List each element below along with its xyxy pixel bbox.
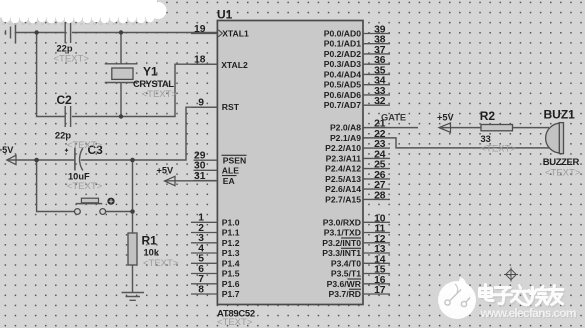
svg-text:P1.1: P1.1 bbox=[222, 228, 240, 238]
svg-text:18: 18 bbox=[194, 55, 206, 66]
svg-text:P0.6/AD6: P0.6/AD6 bbox=[324, 90, 361, 100]
svg-text:P1.7: P1.7 bbox=[222, 289, 240, 299]
svg-text:P0.0/AD0: P0.0/AD0 bbox=[324, 29, 361, 39]
svg-text:P1.5: P1.5 bbox=[222, 269, 240, 279]
svg-text:<TEXT>: <TEXT> bbox=[67, 181, 103, 192]
svg-text:www.elecfans.com: www.elecfans.com bbox=[480, 306, 577, 320]
svg-text:U1: U1 bbox=[217, 8, 233, 22]
svg-text:33: 33 bbox=[481, 134, 491, 144]
svg-text:P3.4/T0: P3.4/T0 bbox=[331, 258, 361, 268]
svg-text:<TEXT>: <TEXT> bbox=[545, 168, 581, 179]
svg-text:XTAL1: XTAL1 bbox=[222, 29, 249, 39]
svg-text:+5V: +5V bbox=[0, 145, 14, 155]
svg-text:10k: 10k bbox=[144, 248, 160, 258]
svg-text:<TEXT>: <TEXT> bbox=[54, 54, 90, 65]
svg-text:R2: R2 bbox=[480, 109, 496, 123]
svg-text:P2.7/A15: P2.7/A15 bbox=[325, 194, 361, 204]
svg-text:P0.3/AD3: P0.3/AD3 bbox=[324, 59, 361, 69]
svg-text:P1.4: P1.4 bbox=[222, 258, 240, 268]
svg-text:P1.2: P1.2 bbox=[222, 238, 240, 248]
svg-text:+5V: +5V bbox=[157, 165, 174, 175]
svg-text:P2.3/A11: P2.3/A11 bbox=[326, 153, 362, 163]
svg-text:P2.4/A12: P2.4/A12 bbox=[325, 164, 361, 174]
svg-text:<TEXT>: <TEXT> bbox=[67, 140, 103, 151]
svg-text:P0.5/AD5: P0.5/AD5 bbox=[324, 80, 361, 90]
svg-text:P3.1/TXD: P3.1/TXD bbox=[324, 228, 361, 238]
svg-text:XTAL2: XTAL2 bbox=[221, 60, 248, 70]
svg-text:P3.7/RD: P3.7/RD bbox=[329, 289, 361, 299]
svg-text:BUZ1: BUZ1 bbox=[544, 108, 576, 122]
svg-text:P0.4/AD4: P0.4/AD4 bbox=[324, 69, 361, 79]
svg-text:PSEN: PSEN bbox=[223, 155, 246, 165]
svg-text:10uF: 10uF bbox=[68, 172, 90, 182]
svg-text:P1.6: P1.6 bbox=[222, 279, 240, 289]
svg-text:P2.0/A8: P2.0/A8 bbox=[330, 123, 361, 133]
svg-text:P2.5/A13: P2.5/A13 bbox=[325, 174, 361, 184]
svg-text:P2.6/A14: P2.6/A14 bbox=[325, 184, 361, 194]
svg-text:<TEXT>: <TEXT> bbox=[217, 317, 253, 328]
svg-text:31: 31 bbox=[194, 171, 206, 182]
svg-text:22p: 22p bbox=[57, 44, 73, 54]
svg-text:P3.0/RXD: P3.0/RXD bbox=[323, 217, 361, 227]
svg-text:<TEXT>: <TEXT> bbox=[142, 89, 178, 100]
svg-text:P3.5/T1: P3.5/T1 bbox=[331, 269, 361, 279]
svg-text:EA: EA bbox=[223, 176, 235, 186]
svg-text:P0.2/AD2: P0.2/AD2 bbox=[324, 49, 361, 59]
svg-text:32: 32 bbox=[374, 96, 386, 107]
svg-text:ALE: ALE bbox=[222, 166, 239, 176]
svg-text:Y1: Y1 bbox=[143, 64, 158, 78]
svg-text:28: 28 bbox=[374, 190, 386, 201]
svg-text:P1.3: P1.3 bbox=[222, 248, 240, 258]
svg-text:C2: C2 bbox=[57, 93, 73, 107]
svg-text:GATE: GATE bbox=[381, 112, 406, 122]
svg-text:<TEXT>: <TEXT> bbox=[143, 258, 179, 269]
svg-text:R1: R1 bbox=[142, 234, 158, 248]
svg-text:P0.7/AD7: P0.7/AD7 bbox=[324, 100, 361, 110]
svg-text:8: 8 bbox=[198, 284, 204, 295]
svg-text:P2.2/A10: P2.2/A10 bbox=[325, 143, 361, 153]
svg-text:BUZZER: BUZZER bbox=[543, 157, 580, 168]
svg-text:P3.2/INT0: P3.2/INT0 bbox=[322, 238, 361, 248]
svg-text:P2.1/A9: P2.1/A9 bbox=[330, 133, 361, 143]
svg-text:P3.6/WR: P3.6/WR bbox=[327, 279, 362, 289]
svg-text:P0.1/AD1: P0.1/AD1 bbox=[324, 39, 361, 49]
svg-text:+5V: +5V bbox=[437, 112, 454, 122]
svg-text:9: 9 bbox=[198, 98, 204, 109]
svg-text:19: 19 bbox=[194, 24, 206, 35]
svg-text:17: 17 bbox=[374, 285, 386, 296]
svg-text:P1.0: P1.0 bbox=[222, 217, 240, 227]
svg-text:P3.3/INT1: P3.3/INT1 bbox=[322, 248, 361, 258]
svg-text:<TEXT>: <TEXT> bbox=[481, 144, 517, 155]
svg-text:RST: RST bbox=[222, 102, 240, 112]
